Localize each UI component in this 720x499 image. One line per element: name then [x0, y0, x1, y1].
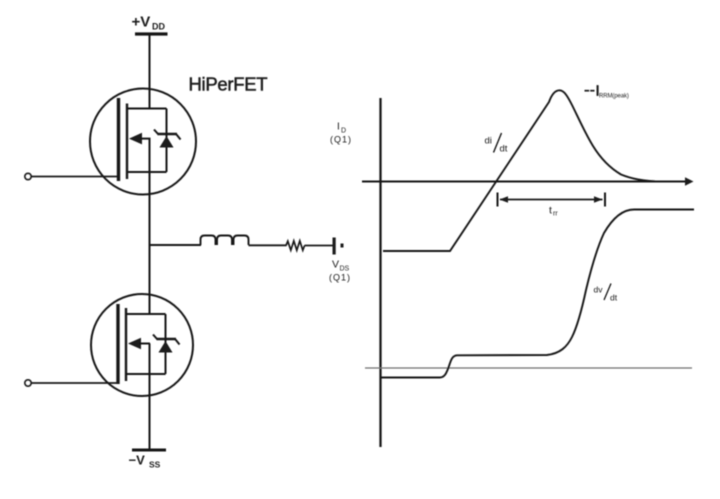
- probe terminal bar: [333, 238, 344, 255]
- transistor Q1 (top HiPerFET MOSFET): [90, 89, 196, 195]
- zero reference line (VDS): [365, 367, 692, 369]
- Q2 source stub: [126, 373, 166, 375]
- Q1 diode branch wire: [166, 109, 168, 173]
- svg-text:(Q1): (Q1): [329, 273, 351, 283]
- wire: inductor to resistor: [249, 244, 287, 246]
- Q1 body diode (zener style): [160, 136, 174, 148]
- dashed leader to -IRRM(peak): [585, 90, 595, 92]
- wire: gate terminal to Q1 gate: [32, 176, 119, 178]
- svg-text:dt: dt: [610, 293, 618, 303]
- label VDS (Q1): [329, 259, 351, 283]
- Q2 drain stub: [126, 313, 166, 315]
- svg-text:di: di: [485, 136, 492, 147]
- label trr: [549, 205, 558, 218]
- power rail -VSS label: [129, 453, 161, 470]
- Q1 source stub: [127, 171, 167, 173]
- svg-text:t: t: [549, 205, 552, 217]
- svg-text:DS: DS: [340, 266, 350, 273]
- wire: resistor to probe terminal: [305, 245, 333, 247]
- wire: Q2 source to -VSS: [149, 344, 151, 450]
- svg-text:RRM(peak): RRM(peak): [599, 94, 629, 100]
- label di/dt: [485, 136, 508, 155]
- Q2 body arrow: [128, 338, 141, 350]
- Q1 gate bar: [117, 98, 120, 181]
- power rail -VSS bar: [132, 449, 166, 452]
- Q1 drain stub: [127, 108, 167, 110]
- label dv/dt: [594, 285, 618, 303]
- trr measurement bars and arrows: [498, 193, 606, 207]
- wire: +VDD to Q1 drain: [149, 35, 151, 109]
- svg-text:dv: dv: [594, 285, 604, 295]
- resistor R: [286, 241, 305, 250]
- transistor Q2 (bottom HiPerFET MOSFET): [91, 294, 193, 396]
- graph horizontal axis (time): [362, 177, 694, 185]
- graph vertical axis: [379, 98, 381, 447]
- inductor L: [201, 236, 249, 246]
- Q1 channel bar: [126, 104, 128, 180]
- wire: Q1 source to node / Q2 drain: [149, 139, 151, 314]
- Q2 gate terminal: [25, 380, 118, 386]
- wire: node to inductor: [150, 244, 202, 246]
- curve ID waveform (reverse recovery): [383, 90, 665, 251]
- Q2 diode branch wire: [165, 314, 167, 374]
- wire: gate terminal to Q2 gate: [32, 382, 119, 384]
- svg-text:rr: rr: [553, 211, 558, 218]
- Q2 body circle: [91, 294, 193, 396]
- Q2 channel bar: [125, 308, 127, 381]
- svg-text:−V: −V: [129, 453, 146, 468]
- label HiPerFET: [189, 74, 268, 95]
- Q1 body circle: [90, 89, 196, 195]
- svg-text:V: V: [332, 259, 339, 271]
- Q1 gate terminal: [25, 173, 119, 179]
- power rail +VDD label: [132, 14, 166, 32]
- Q2 gate bar: [116, 304, 119, 384]
- Q2 body diode (zener style): [159, 341, 173, 353]
- power rail +VDD bar: [135, 32, 168, 35]
- svg-text:D: D: [341, 128, 346, 135]
- Q1 body arrow: [129, 133, 142, 145]
- label -IRRM(peak): [596, 83, 629, 100]
- svg-text:+V: +V: [132, 14, 151, 31]
- curve VDS waveform: [381, 210, 694, 378]
- svg-text:DD: DD: [152, 22, 165, 32]
- svg-text:(Q1): (Q1): [330, 135, 352, 145]
- svg-text:HiPerFET: HiPerFET: [189, 74, 268, 95]
- svg-text:SS: SS: [149, 460, 161, 470]
- label ID (Q1) axis label: [330, 122, 352, 145]
- svg-text:dt: dt: [500, 144, 508, 155]
- svg-text:I: I: [337, 122, 340, 133]
